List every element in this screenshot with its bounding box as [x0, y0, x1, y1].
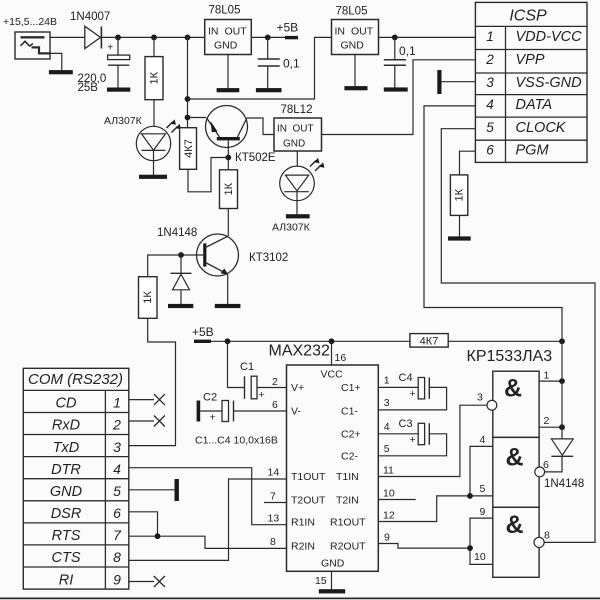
svg-text:6: 6	[486, 143, 494, 158]
label C3	[399, 418, 413, 430]
wire capacitor 0,1 first to ground	[267, 66, 269, 88]
label KT502E	[235, 152, 276, 164]
svg-text:10: 10	[383, 488, 395, 500]
svg-text:0,1: 0,1	[283, 57, 300, 71]
node junction pin1	[559, 378, 565, 384]
svg-text:+5В: +5В	[192, 325, 214, 339]
wire rail to resistor R1	[153, 37, 155, 56]
pin label 2 V+	[272, 376, 278, 388]
svg-text:1N4007: 1N4007	[70, 11, 110, 23]
svg-text:VDD-VCC: VDD-VCC	[516, 29, 583, 45]
svg-text:V-: V-	[291, 406, 301, 418]
svg-text:C1+: C1+	[341, 382, 361, 394]
label COM RS232 header	[28, 371, 123, 388]
svg-text:0,1: 0,1	[399, 44, 416, 58]
node junction pin2	[559, 424, 565, 430]
svg-text:R2IN: R2IN	[291, 540, 315, 552]
svg-text:4: 4	[486, 97, 494, 112]
diode VD1 1N4007	[85, 26, 102, 48]
pin label 6 gate2 output	[543, 459, 549, 471]
pin label 11 T1IN	[383, 465, 394, 477]
node junction DSR RTS	[155, 533, 161, 539]
wire DA3 OUT to VPP row	[322, 60, 476, 135]
wire RTS to R2IN	[129, 536, 287, 548]
wire base node to VT2	[181, 254, 203, 256]
svg-text:6: 6	[272, 399, 278, 411]
capacitor C3 electrolytic	[410, 423, 430, 446]
svg-text:IN: IN	[277, 124, 287, 135]
wire gate1 input pin1	[539, 380, 562, 382]
node junction gate2 inputs	[467, 493, 473, 499]
svg-text:2: 2	[272, 376, 278, 388]
ground R7	[448, 236, 471, 240]
voltage regulator DA2 78L05	[332, 20, 379, 55]
wire emitter to VT1	[188, 117, 207, 119]
wire connector to diode	[50, 36, 85, 38]
ground DA2	[344, 86, 367, 90]
pin row 7 RTS	[52, 527, 122, 544]
wire DA1 OUT to +5V terminal	[251, 36, 285, 38]
svg-text:1: 1	[544, 370, 550, 382]
pin label 10 gate3	[474, 551, 486, 563]
svg-text:1N4148: 1N4148	[544, 478, 584, 490]
wire DA2 OUT to VDD row	[379, 36, 476, 38]
svg-text:+: +	[410, 388, 416, 400]
value label 0,1 first	[283, 57, 300, 71]
wire pin1 to C4	[378, 386, 418, 388]
wire GND pin 15 to ground	[331, 571, 333, 589]
wire base node to R5	[148, 255, 181, 277]
wire VT1 base down	[227, 140, 229, 169]
wire gate3 output to CLOCK net	[441, 129, 595, 543]
svg-text:RI: RI	[59, 572, 74, 588]
pin label 3 gate1 output	[477, 392, 483, 404]
svg-text:T1OUT: T1OUT	[291, 471, 326, 483]
svg-text:T2IN: T2IN	[336, 495, 359, 507]
pin row 4 DATA	[486, 97, 552, 113]
svg-text:КТ502Е: КТ502Е	[235, 152, 276, 164]
ground VD2	[168, 304, 193, 308]
svg-text:4: 4	[384, 421, 390, 433]
node junction gate3 inputs	[467, 545, 473, 551]
voltage regulator DA3 78L12	[274, 118, 322, 151]
pin row 3 TxD	[53, 439, 121, 456]
svg-text:ICSP: ICSP	[509, 8, 547, 25]
wire C2 to V- pin 6	[234, 410, 287, 412]
pin label 7 T2OUT	[270, 491, 276, 503]
svg-text:R1IN: R1IN	[291, 517, 315, 529]
wire VD3 to gate2 output	[545, 456, 563, 472]
node junction C1 branch	[225, 338, 231, 344]
svg-text:C1...C4 10,0x16В: C1...C4 10,0x16В	[195, 435, 278, 447]
label AL307K HL2	[272, 222, 311, 234]
pin label 9 R2OUT	[384, 532, 390, 544]
node junction +15V branch	[185, 35, 191, 41]
resistor R4 1K below VT1	[220, 170, 238, 209]
wire R3 to VT1 base	[188, 158, 228, 192]
transistor VT1 KT502E PNP	[206, 106, 248, 148]
svg-text:5: 5	[384, 443, 390, 455]
pin row 9 RI	[59, 571, 121, 588]
svg-text:8: 8	[544, 530, 550, 542]
svg-text:CD: CD	[56, 396, 77, 412]
pin row 5 GND	[50, 483, 121, 500]
wire gate2 input pin4	[470, 446, 493, 496]
LED HL2 AL307K	[280, 158, 325, 201]
inversion bubble pin 6	[535, 467, 545, 477]
svg-text:14: 14	[268, 467, 280, 479]
svg-text:PGM: PGM	[516, 143, 550, 159]
label 78L12 DA3	[281, 104, 313, 116]
svg-text:1N4148: 1N4148	[157, 227, 197, 239]
wire C3 to pin 5	[378, 434, 446, 456]
wire +15V rail down branch	[187, 37, 189, 128]
wire connector to ground	[50, 53, 62, 70]
connector table COM RS232	[23, 368, 129, 589]
svg-text:+: +	[259, 389, 265, 401]
svg-text:8: 8	[113, 549, 121, 565]
svg-text:3: 3	[113, 439, 121, 455]
wire R2OUT to gate3 inputs	[378, 544, 470, 549]
svg-text:78L05: 78L05	[336, 5, 368, 17]
pin row 6 PGM	[486, 143, 549, 159]
wire DA1 GND to ground	[227, 55, 229, 89]
pin row 4 DTR	[51, 461, 121, 478]
svg-text:R1OUT: R1OUT	[330, 517, 366, 529]
pin label 2 gate1	[544, 415, 550, 427]
svg-text:DATA: DATA	[516, 97, 553, 113]
svg-text:C1: C1	[240, 361, 254, 373]
label MAX232 DD1	[269, 343, 330, 360]
value label C1...C4 10,0x16V	[195, 435, 278, 447]
svg-text:C2: C2	[203, 392, 217, 404]
resistor R3 4K7	[180, 128, 197, 170]
svg-text:1: 1	[486, 29, 494, 44]
svg-text:4К7: 4К7	[183, 139, 195, 158]
ground HL2	[286, 214, 310, 218]
label 78L05 DA1	[209, 4, 241, 16]
pin row 2 VPP	[485, 52, 545, 68]
wire to capacitor 0,1 second	[394, 37, 396, 59]
svg-text:АЛ307К: АЛ307К	[272, 222, 311, 234]
svg-text:C3: C3	[399, 418, 413, 430]
label C4	[399, 372, 413, 384]
wire rail to capacitor 220u	[117, 37, 119, 55]
svg-text:DSR: DSR	[51, 506, 82, 522]
svg-text:GND: GND	[321, 558, 345, 570]
wire CTS to T1OUT	[129, 479, 287, 560]
svg-text:4К7: 4К7	[420, 336, 439, 348]
svg-text:T1IN: T1IN	[336, 471, 359, 483]
connector table ICSP	[475, 2, 587, 162]
svg-text:4: 4	[113, 461, 121, 477]
label 1N4148 VD2	[157, 227, 197, 239]
svg-text:&: &	[504, 374, 522, 402]
pin label 4 gate2	[480, 434, 486, 446]
svg-text:9: 9	[480, 506, 486, 518]
svg-text:8: 8	[270, 536, 276, 548]
wire gate3 input pin9	[470, 518, 493, 564]
node junction VT2 base	[178, 252, 184, 258]
value label 0,1 second	[399, 44, 416, 58]
label KR1533LA3 DD2	[467, 348, 553, 365]
svg-text:9: 9	[113, 571, 121, 587]
pin label 10 T2IN	[383, 488, 395, 500]
wire DA2 GND to ground	[354, 55, 356, 87]
svg-text:T2OUT: T2OUT	[291, 495, 326, 507]
logic gate DD2.2 NAND	[493, 437, 539, 507]
wire C1 to V+ pin 2	[257, 387, 287, 389]
svg-text:OUT: OUT	[293, 124, 314, 135]
svg-text:OUT: OUT	[351, 26, 374, 38]
wire HL1 to ground	[153, 150, 155, 175]
pin label 8 R2IN	[270, 536, 276, 548]
pin label 12 R1OUT	[383, 510, 395, 522]
wire gate1 input pin2	[539, 426, 562, 428]
ground capacitor 220u	[107, 88, 130, 92]
label +5V second	[192, 325, 214, 339]
resistor R6 4K7 horizontal	[410, 334, 448, 348]
wire DA3 GND to LED HL2	[296, 151, 298, 166]
svg-text:12: 12	[383, 510, 395, 522]
svg-text:+: +	[107, 43, 113, 54]
label C2	[203, 392, 217, 404]
svg-text:+: +	[210, 412, 216, 424]
svg-text:25В: 25В	[78, 82, 99, 94]
svg-text:КР1533ЛА3: КР1533ЛА3	[467, 348, 553, 365]
svg-text:1К: 1К	[223, 182, 235, 195]
wire VT2 emitter to ground	[227, 274, 229, 304]
wire DTR to R1IN	[129, 468, 287, 525]
svg-text:IN: IN	[335, 26, 346, 38]
wire DATA net from ICSP	[424, 106, 562, 341]
node junction VCC pin16	[329, 338, 335, 344]
pin label 4 C2+	[384, 421, 390, 433]
svg-text:10: 10	[474, 551, 486, 563]
pin row 8 CTS	[52, 549, 122, 566]
svg-text:78L12: 78L12	[281, 104, 313, 116]
wire 4K7 to DATA node	[448, 340, 562, 342]
svg-text:GND: GND	[341, 40, 365, 52]
wire R4 to VT2 collector	[227, 209, 229, 237]
ground VT2	[215, 304, 241, 308]
ground HL1	[139, 175, 167, 179]
svg-text:1: 1	[384, 375, 390, 387]
ground capacitor 0,1 second	[384, 87, 408, 91]
svg-text:VPP: VPP	[516, 52, 545, 68]
wire HL2 to ground	[296, 192, 298, 215]
svg-text:&: &	[505, 511, 523, 539]
svg-text:C2+: C2+	[341, 428, 361, 440]
wire main rail diode to DA1	[101, 36, 204, 38]
pin label 15	[315, 575, 327, 587]
label 1N4148 VD3	[544, 478, 584, 490]
svg-text:9: 9	[384, 532, 390, 544]
capacitor 220,0 25V electrolytic	[107, 43, 130, 66]
inversion bubble pin 3	[487, 400, 497, 410]
pin label 3 C1-	[384, 397, 390, 409]
wire base node to diode VD2	[180, 255, 182, 273]
pin row 5 CLOCK	[486, 120, 567, 136]
capacitor C2 electrolytic	[210, 401, 234, 424]
pin label 5 C2-	[384, 443, 390, 455]
node junction C1 filter	[115, 35, 121, 41]
label ICSP header	[509, 8, 547, 25]
LED HL1 AL307K	[136, 119, 181, 161]
wire PGM row to R7	[460, 151, 476, 175]
svg-text:V+: V+	[291, 382, 304, 394]
svg-text:VSS-GND: VSS-GND	[516, 75, 582, 91]
capacitor 0,1 first	[258, 59, 280, 66]
svg-text:5: 5	[486, 120, 494, 135]
wire C4 to pin 3	[378, 387, 446, 410]
pin row 2 RxD	[52, 417, 121, 434]
pin label 13 R1IN	[268, 513, 280, 525]
svg-text:1К: 1К	[149, 71, 161, 84]
svg-text:1: 1	[113, 395, 121, 411]
svg-text:C2-: C2-	[341, 450, 358, 462]
ground DD1	[319, 589, 345, 593]
svg-text:КТ3102: КТ3102	[249, 252, 288, 264]
ground capacitor 0,1 first	[256, 88, 282, 92]
node junction C 0,1 first	[265, 35, 271, 41]
svg-text:GND: GND	[50, 484, 82, 500]
node junction DATA net	[559, 338, 565, 344]
svg-text:1К: 1К	[454, 188, 466, 201]
voltage regulator DA1 78L05	[205, 20, 252, 55]
svg-text:RxD: RxD	[52, 418, 80, 434]
node junction VT1 emitter	[185, 115, 191, 121]
diode VD3 1N4148	[551, 439, 573, 456]
wire VD2 to ground	[180, 290, 182, 304]
node junction detour to DA2	[185, 96, 191, 102]
wire +5V to C1	[228, 341, 245, 387]
svg-text:+5В: +5В	[277, 21, 299, 35]
svg-text:+: +	[410, 434, 416, 446]
svg-text:7: 7	[270, 491, 276, 503]
pin label 16	[335, 352, 347, 364]
net terminal +5V	[285, 36, 298, 39]
label +5V first	[277, 21, 299, 35]
wire VCC pin 16	[331, 341, 333, 365]
svg-text:4: 4	[480, 434, 486, 446]
net terminal GND COM	[175, 479, 179, 501]
stub T2OUT unconnected	[264, 502, 287, 504]
logic gate DD2.1 NAND	[493, 371, 539, 437]
svg-text:2: 2	[112, 417, 121, 433]
svg-text:6: 6	[113, 505, 121, 521]
svg-text:3: 3	[477, 392, 483, 404]
svg-text:C4: C4	[399, 372, 413, 384]
inversion bubble pin 8	[534, 537, 544, 547]
svg-text:5: 5	[480, 483, 486, 495]
node junction R1	[151, 35, 157, 41]
wire R7 to ground	[459, 215, 461, 236]
capacitor C1 electrolytic	[245, 376, 265, 401]
node junction C 0,1 second	[392, 35, 398, 41]
pin label 8 gate3 output	[544, 530, 550, 542]
svg-text:R2OUT: R2OUT	[330, 540, 366, 552]
wire capacitor 0,1 second to ground	[394, 65, 396, 88]
wire GND row to terminal	[129, 489, 175, 491]
node junction VT1 base	[225, 155, 231, 161]
svg-text:RTS: RTS	[52, 528, 81, 544]
capacitor C4 electrolytic	[410, 378, 430, 401]
label C1	[240, 361, 254, 373]
wire +5V rail to 4K7	[211, 340, 410, 342]
pin label 1 gate1	[544, 370, 550, 382]
pin row 3 VSS-GND	[486, 75, 581, 91]
label +15,5...24V input	[3, 16, 57, 28]
svg-text:78L05: 78L05	[209, 4, 241, 16]
label KT3102	[249, 252, 288, 264]
wire gate2 input pin5	[470, 495, 493, 497]
wire R5 to TxD	[129, 318, 176, 445]
ground connector	[49, 70, 73, 74]
wire VSS terminal to row 3	[442, 81, 476, 83]
label 1N4007	[70, 11, 110, 23]
stub RI not connected	[129, 576, 165, 587]
IC DD1 MAX232	[287, 365, 379, 571]
net terminal C2	[197, 401, 201, 422]
svg-text:15: 15	[315, 575, 327, 587]
value label 220,0 25V	[78, 73, 107, 94]
svg-text:TxD: TxD	[53, 440, 80, 456]
svg-text:&: &	[505, 444, 523, 472]
label AL307K HL1	[104, 115, 143, 127]
wire DATA net vertical	[561, 341, 563, 439]
wire pin4 to C3	[378, 433, 418, 435]
svg-text:C1-: C1-	[341, 406, 358, 418]
transistor VT2 KT3102 NPN	[197, 234, 239, 276]
wire detour +15V to DA2 input	[188, 37, 332, 99]
logic gate DD2.3 NAND	[493, 507, 539, 577]
ground DA1	[217, 88, 240, 92]
wire terminal to C2	[200, 410, 222, 412]
wire to capacitor 0,1 first	[267, 37, 269, 59]
stub CD not connected	[129, 394, 165, 405]
label 78L05 DA2	[336, 5, 368, 17]
pin label 1 C1+	[384, 375, 390, 387]
bottom border line	[0, 597, 600, 599]
wire R1OUT to gate2 inputs	[378, 496, 470, 522]
net terminal +5V second	[194, 340, 211, 343]
stub T2IN unconnected	[378, 499, 416, 501]
svg-text:CTS: CTS	[52, 550, 81, 566]
svg-text:3: 3	[384, 397, 390, 409]
wire DSR to RTS	[129, 512, 158, 536]
svg-text:13: 13	[268, 513, 280, 525]
svg-text:5: 5	[113, 483, 121, 499]
svg-text:DTR: DTR	[51, 462, 81, 478]
stub RxD not connected	[129, 416, 165, 427]
wire R1 to LED HL1	[153, 100, 155, 127]
svg-text:GND: GND	[283, 139, 305, 150]
svg-text:2: 2	[485, 52, 494, 67]
pin label 14 T1OUT	[268, 467, 280, 479]
wire capacitor 220u to ground	[117, 65, 119, 88]
wire VT1 collector to DA3 input	[247, 118, 274, 135]
svg-text:+15,5...24В: +15,5...24В	[3, 16, 57, 28]
svg-text:IN: IN	[208, 26, 219, 38]
svg-text:16: 16	[335, 352, 347, 364]
pin row 1 VDD-VCC	[486, 29, 582, 45]
capacitor 0,1 second	[384, 60, 406, 66]
svg-text:7: 7	[113, 527, 122, 543]
pin label 9 gate3	[480, 506, 486, 518]
pin row 6 DSR	[51, 505, 121, 522]
svg-text:CLOCK: CLOCK	[516, 120, 567, 136]
